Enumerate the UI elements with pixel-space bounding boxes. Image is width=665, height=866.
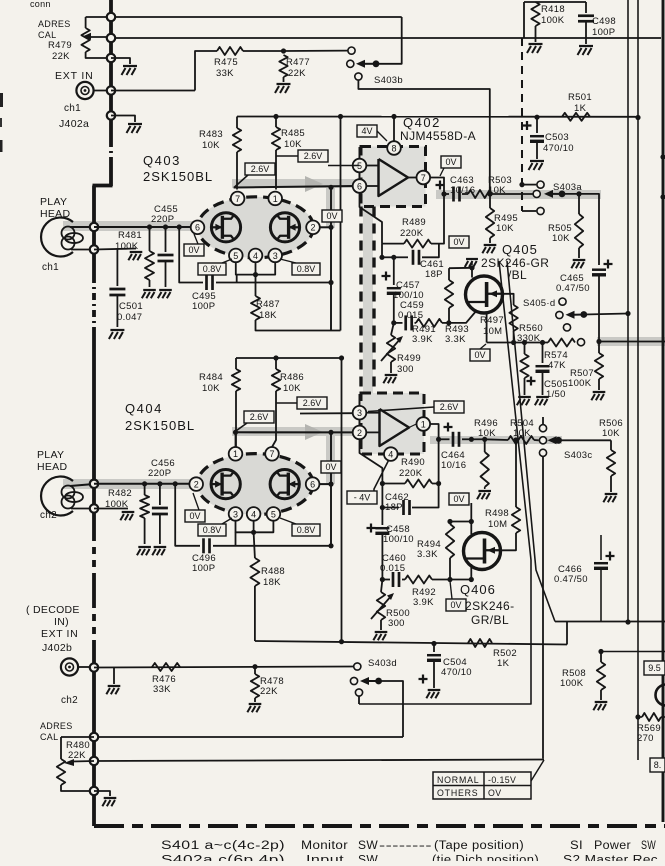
svg-text:18P: 18P — [425, 269, 443, 280]
svg-text:4V: 4V — [361, 126, 372, 136]
svg-text:8.: 8. — [654, 760, 662, 770]
svg-text:6: 6 — [195, 223, 200, 233]
svg-text:9.5: 9.5 — [648, 663, 661, 673]
svg-text:-0.15V: -0.15V — [488, 775, 516, 785]
svg-text:2: 2 — [357, 428, 362, 438]
svg-text:22K: 22K — [52, 51, 70, 62]
svg-text:0V: 0V — [453, 237, 464, 247]
svg-text:3: 3 — [357, 408, 362, 418]
svg-text:100P: 100P — [592, 27, 615, 38]
svg-text:10K: 10K — [478, 428, 496, 439]
svg-text:2: 2 — [194, 480, 199, 490]
svg-text:4: 4 — [253, 251, 258, 261]
svg-text:S401 a~c(4c-2p): S401 a~c(4c-2p) — [161, 840, 285, 852]
svg-text:S403a: S403a — [553, 182, 582, 193]
svg-text:(tie Dich position): (tie Dich position) — [432, 855, 539, 862]
svg-text:3: 3 — [273, 251, 278, 261]
svg-text:2SK150BL: 2SK150BL — [143, 169, 213, 184]
svg-text:CAL: CAL — [40, 732, 58, 742]
svg-text:(Tape position): (Tape position) — [434, 840, 524, 852]
svg-text:R486: R486 — [280, 372, 304, 383]
svg-text:R483: R483 — [199, 129, 223, 140]
svg-text:33K: 33K — [153, 684, 171, 695]
svg-text:S405·d: S405·d — [523, 298, 555, 309]
svg-text:6: 6 — [310, 480, 315, 490]
svg-text:0.015: 0.015 — [380, 563, 405, 574]
svg-text:3.3K: 3.3K — [445, 334, 466, 345]
svg-text:R481: R481 — [118, 230, 142, 241]
svg-text:300: 300 — [388, 618, 405, 629]
svg-text:( DECODE: ( DECODE — [26, 604, 80, 616]
svg-text:0.8V: 0.8V — [297, 264, 316, 274]
svg-text:1K: 1K — [497, 658, 510, 669]
svg-text:R497: R497 — [480, 315, 504, 326]
svg-text:Q402: Q402 — [403, 115, 441, 130]
svg-text:Q406: Q406 — [460, 582, 496, 597]
svg-text:0V: 0V — [188, 245, 199, 255]
svg-text:3.3K: 3.3K — [417, 549, 438, 560]
svg-text:100/10: 100/10 — [383, 534, 414, 545]
svg-text:470/10: 470/10 — [543, 143, 574, 154]
svg-text:R501: R501 — [568, 92, 592, 103]
svg-text:10K: 10K — [202, 140, 220, 151]
svg-text:2.6V: 2.6V — [250, 412, 269, 422]
svg-text:SW: SW — [358, 855, 378, 862]
svg-text:470/10: 470/10 — [441, 667, 472, 678]
svg-text:220K: 220K — [399, 468, 423, 479]
svg-text:R490: R490 — [401, 457, 425, 468]
svg-text:R489: R489 — [402, 217, 426, 228]
svg-text:NORMAL: NORMAL — [437, 775, 479, 785]
svg-text:ch2: ch2 — [40, 510, 57, 521]
svg-text:10K: 10K — [552, 233, 570, 244]
svg-text:100P: 100P — [192, 563, 215, 574]
svg-text:EXT IN: EXT IN — [55, 70, 93, 82]
svg-text:SW: SW — [641, 840, 656, 852]
svg-text:S403d: S403d — [368, 658, 397, 669]
svg-text:EXT IN: EXT IN — [41, 628, 78, 640]
svg-text:10K: 10K — [602, 428, 620, 439]
svg-text:0V: 0V — [474, 350, 485, 360]
svg-text:33K: 33K — [216, 68, 234, 79]
svg-text:- 4V: - 4V — [354, 493, 371, 503]
svg-text:R484: R484 — [199, 372, 223, 383]
svg-text:conn: conn — [30, 0, 51, 9]
svg-text:C503: C503 — [545, 132, 569, 143]
svg-text:100K: 100K — [568, 378, 592, 389]
svg-text:47K: 47K — [548, 360, 566, 371]
svg-text:HEAD: HEAD — [40, 208, 70, 220]
svg-text:220P: 220P — [148, 468, 171, 479]
svg-text:R488: R488 — [261, 566, 285, 577]
svg-text:0V: 0V — [450, 600, 461, 610]
svg-text:S2 Master Rec: S2 Master Rec — [563, 855, 658, 862]
svg-text:1K: 1K — [574, 103, 587, 114]
svg-text:R499: R499 — [397, 353, 421, 364]
svg-text:PLAY: PLAY — [37, 449, 64, 461]
svg-text:7: 7 — [421, 173, 426, 183]
svg-text:C498: C498 — [592, 16, 616, 27]
svg-text:300: 300 — [397, 364, 414, 375]
svg-text:R485: R485 — [281, 128, 305, 139]
svg-text:330K: 330K — [517, 333, 541, 344]
svg-text:HEAD: HEAD — [37, 461, 67, 473]
svg-text:Input: Input — [306, 855, 345, 862]
svg-text:2: 2 — [310, 223, 315, 233]
svg-text:3.9K: 3.9K — [412, 334, 433, 345]
svg-text:18K: 18K — [263, 577, 281, 588]
svg-text:6: 6 — [357, 181, 362, 191]
svg-text:Power: Power — [594, 840, 631, 852]
svg-text:10K: 10K — [202, 383, 220, 394]
svg-text:2.6V: 2.6V — [303, 398, 322, 408]
svg-text:0.8V: 0.8V — [203, 525, 222, 535]
svg-text:4: 4 — [251, 509, 256, 519]
svg-text:22K: 22K — [260, 686, 278, 697]
svg-text:SW: SW — [358, 840, 378, 852]
svg-text:100K: 100K — [115, 241, 139, 252]
svg-text:Q405: Q405 — [502, 242, 538, 257]
svg-text:R487: R487 — [256, 299, 280, 310]
svg-text:NJM4558D-A: NJM4558D-A — [400, 129, 476, 143]
svg-text:J402a: J402a — [59, 118, 89, 130]
svg-text:3: 3 — [233, 509, 238, 519]
svg-text:0.8V: 0.8V — [297, 525, 316, 535]
svg-text:10K: 10K — [496, 223, 514, 234]
svg-text:Q403: Q403 — [143, 153, 181, 168]
svg-text:ch1: ch1 — [42, 262, 59, 273]
svg-text:2.6V: 2.6V — [251, 164, 270, 174]
svg-text:10M: 10M — [488, 519, 507, 530]
svg-text:0V: 0V — [453, 494, 464, 504]
svg-text:R482: R482 — [108, 488, 132, 499]
svg-text:100P: 100P — [192, 301, 215, 312]
svg-text:GR/BL: GR/BL — [471, 613, 509, 627]
svg-text:CAL: CAL — [38, 30, 56, 40]
svg-text:ch1: ch1 — [64, 103, 81, 114]
svg-text:0V: 0V — [326, 211, 337, 221]
svg-text:4: 4 — [388, 450, 393, 460]
svg-text:R475: R475 — [214, 57, 238, 68]
svg-text:OV: OV — [488, 788, 502, 798]
svg-text:220P: 220P — [151, 214, 174, 225]
svg-text:0.047: 0.047 — [117, 312, 142, 323]
svg-text:0V: 0V — [189, 511, 200, 521]
svg-text:PLAY: PLAY — [40, 196, 67, 208]
svg-text:10/16: 10/16 — [450, 185, 475, 196]
svg-text:100K: 100K — [560, 678, 584, 689]
svg-text:S403b: S403b — [374, 75, 403, 86]
svg-text:1: 1 — [273, 194, 278, 204]
svg-text:3.9K: 3.9K — [413, 597, 434, 608]
svg-text:R477: R477 — [286, 57, 310, 68]
svg-text:0V: 0V — [445, 157, 456, 167]
svg-text:2.6V: 2.6V — [440, 402, 459, 412]
svg-text:ADRES: ADRES — [40, 721, 73, 731]
svg-text:10K: 10K — [283, 383, 301, 394]
svg-text:J402b: J402b — [42, 642, 72, 654]
svg-text:ch2: ch2 — [61, 695, 78, 706]
svg-text:8: 8 — [391, 143, 396, 153]
svg-text:18P: 18P — [385, 502, 403, 513]
svg-text:SI: SI — [570, 840, 583, 852]
svg-text:18K: 18K — [259, 310, 277, 321]
svg-text:5: 5 — [271, 509, 276, 519]
svg-text:0.47/50: 0.47/50 — [554, 574, 588, 585]
svg-text:OTHERS: OTHERS — [437, 788, 478, 798]
svg-text:0V: 0V — [325, 462, 336, 472]
svg-text:R418: R418 — [541, 4, 565, 15]
svg-text:5: 5 — [233, 251, 238, 261]
svg-text:7: 7 — [269, 449, 274, 459]
svg-text:R498: R498 — [485, 508, 509, 519]
svg-text:2.6V: 2.6V — [304, 151, 323, 161]
svg-text:22K: 22K — [68, 750, 86, 761]
svg-text:10K: 10K — [513, 428, 531, 439]
svg-text:Q404: Q404 — [125, 401, 163, 416]
svg-text:ADRES: ADRES — [38, 19, 71, 29]
svg-text:2SK150BL: 2SK150BL — [125, 418, 195, 433]
svg-text:10K: 10K — [284, 139, 302, 150]
svg-text:0.47/50: 0.47/50 — [556, 283, 590, 294]
svg-text:1: 1 — [421, 419, 426, 429]
svg-text:S403c: S403c — [564, 450, 592, 461]
svg-text:2SK246-: 2SK246- — [465, 599, 515, 613]
svg-text:IN): IN) — [54, 616, 69, 628]
svg-text:--------: -------- — [379, 840, 432, 852]
svg-text:R479: R479 — [48, 40, 72, 51]
svg-text:7: 7 — [235, 194, 240, 204]
svg-text:1: 1 — [233, 449, 238, 459]
svg-text:10/16: 10/16 — [441, 460, 466, 471]
svg-text:1/50: 1/50 — [546, 389, 566, 400]
svg-text:100K: 100K — [105, 499, 129, 510]
svg-text:100K: 100K — [541, 15, 565, 26]
svg-text:C501: C501 — [119, 301, 143, 312]
svg-text:220K: 220K — [400, 228, 424, 239]
svg-text:S402a c(6p 4p): S402a c(6p 4p) — [161, 855, 285, 862]
svg-text:/BL: /BL — [508, 268, 527, 282]
svg-text:0.8V: 0.8V — [203, 264, 222, 274]
svg-text:Monitor: Monitor — [301, 840, 348, 852]
svg-text:270: 270 — [637, 733, 654, 744]
svg-text:22K: 22K — [288, 68, 306, 79]
svg-text:0.015: 0.015 — [398, 310, 423, 321]
